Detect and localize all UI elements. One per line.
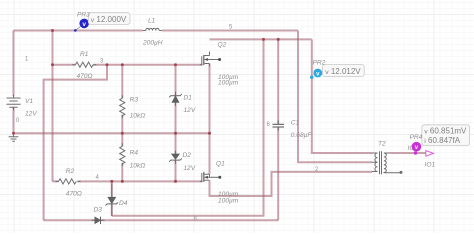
svg-text:0.68µF: 0.68µF: [291, 132, 313, 139]
svg-text:6: 6: [267, 122, 271, 128]
svg-text:200µH: 200µH: [142, 40, 163, 47]
svg-text:v: v: [82, 21, 86, 28]
svg-text:D1: D1: [184, 94, 193, 101]
svg-text:IO1: IO1: [425, 162, 436, 169]
svg-text:i 60.847fA: i 60.847fA: [424, 136, 460, 145]
svg-text:v 12.012V: v 12.012V: [325, 67, 361, 76]
svg-text:0: 0: [16, 118, 20, 124]
svg-text:R1: R1: [80, 51, 89, 58]
svg-text:R4: R4: [130, 149, 139, 156]
svg-text:3: 3: [100, 59, 104, 65]
svg-text:12V: 12V: [184, 107, 196, 114]
svg-text:4: 4: [96, 175, 100, 181]
svg-text:v 60.851mV: v 60.851mV: [424, 126, 467, 135]
svg-text:12V: 12V: [25, 110, 37, 117]
svg-text:470Ω: 470Ω: [66, 191, 82, 198]
svg-text:L1: L1: [148, 18, 156, 25]
svg-text:100µm: 100µm: [218, 197, 239, 204]
svg-text:1: 1: [25, 57, 29, 63]
svg-text:100µm: 100µm: [218, 80, 239, 87]
svg-text:D2: D2: [183, 152, 192, 159]
svg-text:470Ω: 470Ω: [77, 73, 93, 80]
svg-text:10kΩ: 10kΩ: [130, 162, 146, 169]
svg-text:PR4: PR4: [410, 134, 423, 141]
svg-text:D4: D4: [119, 200, 128, 207]
svg-text:Q1: Q1: [216, 161, 225, 168]
svg-text:10kΩ: 10kΩ: [130, 112, 146, 119]
svg-text:PR2: PR2: [313, 59, 326, 66]
svg-text:12V: 12V: [183, 165, 195, 172]
svg-text:R3: R3: [130, 97, 139, 104]
svg-text:C1: C1: [291, 120, 300, 127]
svg-text:R2: R2: [66, 168, 75, 175]
svg-text:D3: D3: [94, 206, 103, 213]
svg-text:v 12.000V: v 12.000V: [91, 15, 127, 24]
svg-text:V1: V1: [25, 98, 33, 105]
svg-text:PR3: PR3: [77, 12, 90, 19]
svg-text:Q2: Q2: [218, 41, 227, 48]
svg-text:T2: T2: [378, 140, 386, 147]
